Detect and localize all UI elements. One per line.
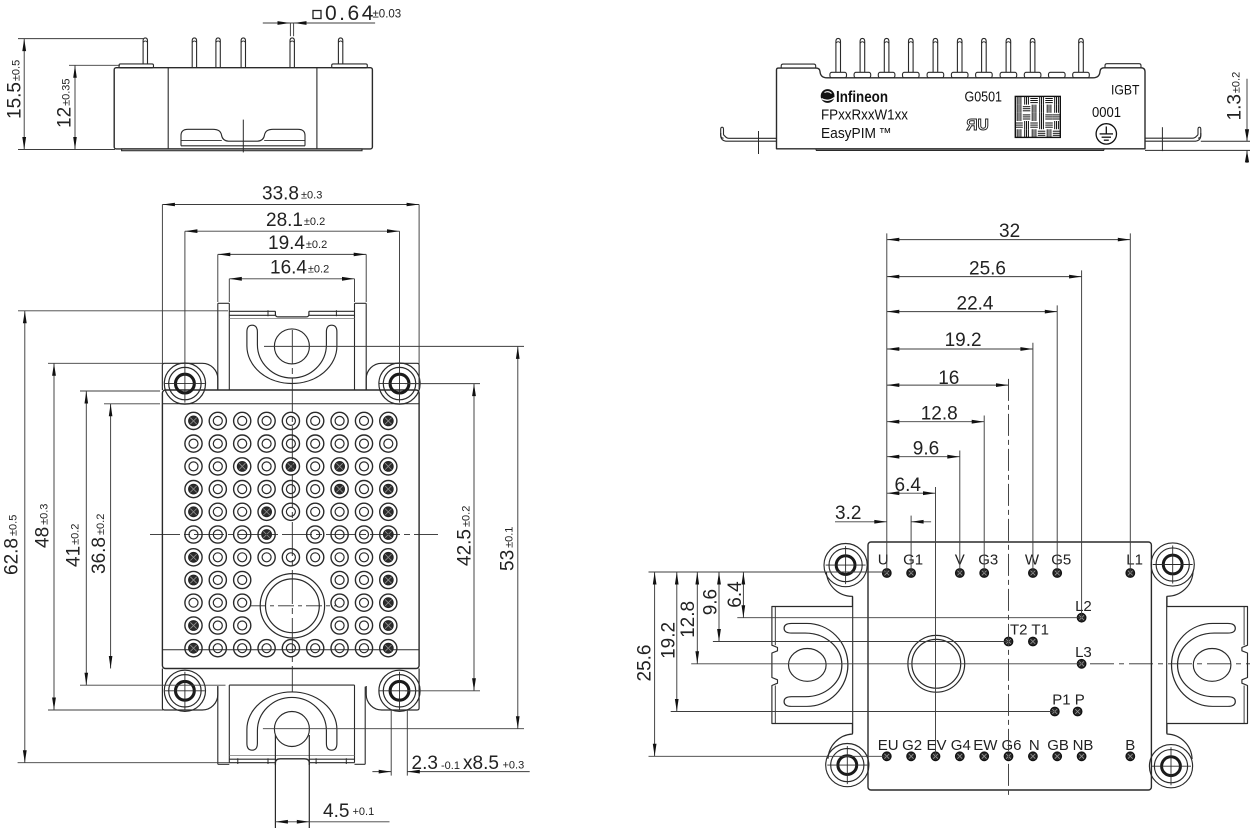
pin T1 — [1029, 637, 1038, 646]
pin G5 — [1053, 569, 1062, 578]
svg-text:0001: 0001 — [1092, 105, 1121, 121]
svg-text:0.64: 0.64 — [325, 2, 376, 25]
svg-text:6.4: 6.4 — [725, 581, 746, 608]
svg-text:15.5: 15.5 — [4, 82, 25, 119]
centre column dash-dot — [1008, 379, 1010, 795]
pin EW — [980, 752, 989, 761]
pin EV — [931, 752, 940, 761]
solder-pin hole grid — [185, 412, 202, 429]
left row extension bottom — [649, 755, 887, 757]
svg-text:+0.3: +0.3 — [503, 759, 525, 771]
mounting hole bottom-right — [390, 681, 409, 700]
svg-text:L2: L2 — [1075, 598, 1092, 615]
bottom keyhole circle — [274, 712, 309, 747]
svg-text:G5: G5 — [1051, 552, 1071, 569]
pin V — [956, 569, 965, 578]
svg-text:±0.2: ±0.2 — [70, 524, 82, 545]
bottom bracket pedestal — [217, 687, 219, 765]
pin G2 — [907, 752, 916, 761]
svg-text:T2 T1: T2 T1 — [1010, 622, 1049, 639]
dim 12.8 — [887, 421, 984, 423]
thermistor centreline — [250, 605, 337, 607]
dim 2.3 x 8.5 — [372, 771, 391, 773]
dim 0.64 square pin — [263, 22, 375, 24]
left row extension U — [649, 571, 887, 573]
dim 15.5 — [23, 39, 25, 150]
top bracket plate — [228, 303, 230, 390]
dim 42.5 — [473, 384, 475, 691]
pin 1 (front view) — [836, 38, 841, 72]
svg-text:16.4: 16.4 — [270, 258, 307, 279]
mounting hole top-right — [390, 374, 409, 393]
dim 1.3 — [1246, 79, 1248, 141]
ear bottom-left tail — [828, 724, 852, 759]
svg-text:IGBT: IGBT — [1111, 82, 1140, 98]
svg-text:EU: EU — [878, 737, 899, 754]
pin G1 — [907, 569, 916, 578]
pin GB — [1053, 752, 1062, 761]
dim 12 — [74, 65, 76, 149]
bottom keyhole clamp — [247, 692, 337, 750]
dim 6.4 — [887, 492, 936, 494]
svg-text:19.2: 19.2 — [659, 622, 680, 659]
right clip tick — [1161, 127, 1163, 151]
pin 11 (front view) — [1079, 38, 1084, 72]
mount hole top-right — [1163, 555, 1182, 574]
svg-text:x8.5: x8.5 — [463, 753, 499, 774]
svg-text:4.5: 4.5 — [323, 801, 349, 822]
svg-text:3.2: 3.2 — [835, 503, 861, 524]
svg-text:±0.2: ±0.2 — [461, 506, 473, 527]
pin foot 1 — [830, 72, 847, 78]
pin foot 9 — [1024, 72, 1041, 78]
top bracket pedestal — [217, 303, 219, 390]
ear top-left tail — [826, 572, 852, 607]
ear bottom-right tail — [1167, 724, 1192, 760]
svg-text:+0.1: +0.1 — [353, 806, 375, 818]
svg-text:6.4: 6.4 — [895, 475, 922, 496]
mounting hole bottom-left — [176, 681, 195, 700]
module body (top view) — [868, 542, 1151, 790]
dim 12.8 (left) — [696, 572, 698, 664]
pin 8 (front view) — [1006, 38, 1011, 72]
right bracket plate — [1167, 607, 1248, 724]
left clip tick — [758, 131, 760, 154]
pin W — [1029, 569, 1038, 578]
pin EU — [883, 752, 892, 761]
ground symbol — [1096, 124, 1116, 144]
ear top-right tail — [1167, 571, 1193, 607]
dim 19.4 — [218, 253, 366, 255]
pin NB — [1077, 752, 1086, 761]
datamatrix code — [1015, 96, 1060, 137]
mounting ear bottom-right — [366, 669, 419, 711]
dim 36.8 — [110, 404, 112, 669]
mount hole bottom-left — [838, 756, 857, 775]
substrate inner top line — [162, 403, 419, 405]
svg-text:9.6: 9.6 — [913, 439, 939, 460]
dim 16 — [887, 384, 1009, 386]
mounting ear top-left — [162, 363, 217, 390]
pin foot 4 — [903, 72, 920, 78]
dim 19.2 (left) — [676, 572, 678, 712]
left top tab — [781, 64, 816, 68]
body section line left — [167, 68, 169, 149]
svg-text:G4: G4 — [951, 737, 971, 754]
svg-text:±0.2: ±0.2 — [1231, 72, 1243, 93]
dim 6.4 (left) — [742, 572, 744, 618]
left keyhole clamp — [784, 623, 848, 706]
svg-text:±0.5: ±0.5 — [10, 60, 22, 81]
pin 4 (front view) — [909, 38, 914, 72]
svg-text:41: 41 — [64, 546, 85, 567]
svg-text:19.4: 19.4 — [268, 233, 305, 254]
left keyhole circle — [789, 649, 827, 682]
svg-text:G6: G6 — [1002, 737, 1022, 754]
pin B — [1126, 752, 1135, 761]
centre tick — [242, 120, 244, 153]
svg-text:G2: G2 — [902, 737, 922, 754]
pin L3 — [1077, 660, 1086, 669]
svg-text:22.4: 22.4 — [957, 294, 994, 315]
svg-text:EasyPIM: EasyPIM — [821, 126, 876, 142]
right keyhole clamp — [1172, 623, 1236, 706]
seating plane extension — [1145, 149, 1250, 151]
pin foot 10 — [1049, 72, 1066, 78]
svg-text:FPxxRxxW1xx: FPxxRxxW1xx — [821, 108, 909, 124]
slot extension lines — [390, 709, 392, 776]
right keyhole circle — [1193, 649, 1231, 682]
bottom terminal tongue — [274, 735, 276, 828]
dim 3.2 — [835, 521, 887, 523]
svg-text:±0.2: ±0.2 — [308, 264, 329, 276]
pin foot 8 — [1000, 72, 1017, 78]
svg-text:GB: GB — [1047, 737, 1069, 754]
pin N — [1029, 752, 1038, 761]
pin 2 (front view) — [860, 38, 865, 72]
pin foot 3 — [878, 72, 895, 78]
right mounting clip — [1145, 127, 1201, 138]
dim 28.1 — [185, 230, 400, 232]
pin 3 — [216, 38, 220, 68]
svg-text:±0.3: ±0.3 — [39, 504, 51, 525]
dim 9.6 — [887, 456, 960, 458]
svg-text:±0.1: ±0.1 — [504, 527, 516, 548]
UL logo — [966, 117, 988, 134]
svg-text:EV: EV — [927, 737, 947, 754]
Infineon logo — [821, 89, 835, 103]
pin 1 (on left pedestal) — [143, 38, 147, 64]
dim 9.6 (left) — [718, 572, 720, 642]
row extension P1 — [671, 711, 1055, 713]
L2 column extension — [1081, 270, 1083, 617]
mount hole top-left — [836, 556, 855, 575]
pin 7 (front view) — [982, 38, 987, 72]
svg-text:1.3: 1.3 — [1225, 94, 1246, 120]
pin G3 — [980, 569, 989, 578]
svg-text:G0501: G0501 — [965, 90, 1003, 106]
svg-text:12: 12 — [55, 107, 76, 128]
right pedestal — [332, 64, 368, 68]
EV column extension — [935, 487, 937, 756]
pin P — [1073, 707, 1082, 716]
svg-text:12.8: 12.8 — [678, 601, 699, 638]
pin 3 (front view) — [884, 38, 889, 72]
svg-text:W: W — [1025, 552, 1040, 569]
svg-text:25.6: 25.6 — [969, 259, 1006, 280]
substrate inner bottom line — [162, 649, 419, 651]
pin L1 — [1126, 569, 1135, 578]
svg-text:N: N — [1029, 737, 1040, 754]
dim 19.2 — [887, 348, 1033, 350]
row extension L3 centreline — [691, 663, 1082, 665]
svg-text:2.3: 2.3 — [412, 753, 438, 774]
svg-text:-0.1: -0.1 — [441, 760, 460, 772]
dim 41 — [85, 391, 87, 685]
dim 25.6 (left) — [654, 572, 656, 756]
G5 column extension — [1056, 305, 1058, 573]
horizontal centreline — [150, 534, 438, 536]
pin T2 — [1004, 637, 1013, 646]
svg-text:28.1: 28.1 — [266, 210, 303, 231]
svg-text:±0.2: ±0.2 — [95, 514, 107, 535]
pin 5 (measured pin) — [290, 38, 294, 68]
svg-text:53: 53 — [498, 550, 519, 571]
dim 16.4 — [229, 278, 354, 280]
svg-text:G1: G1 — [903, 552, 923, 569]
body section line right — [316, 68, 318, 149]
thermistor circle — [908, 635, 965, 692]
dim 62.8 — [24, 311, 26, 763]
svg-text:™: ™ — [879, 125, 892, 140]
right top tab — [1105, 64, 1141, 68]
svg-text:L3: L3 — [1075, 644, 1092, 661]
svg-text:NB: NB — [1073, 737, 1094, 754]
svg-text:42.5: 42.5 — [455, 529, 476, 566]
dim 25.6 — [887, 276, 1082, 278]
left pedestal — [119, 64, 154, 68]
baseplate edge — [816, 149, 1104, 151]
pin L2 — [1077, 613, 1086, 622]
dim 32 — [887, 239, 1131, 241]
svg-text:±0.5: ±0.5 — [8, 515, 20, 536]
pin U — [883, 569, 892, 578]
pin foot 6 — [951, 72, 968, 78]
svg-text:G3: G3 — [978, 552, 998, 569]
pin 9 (front view) — [1030, 38, 1035, 72]
row extension T2 — [713, 641, 1009, 643]
pin 6 (on right pedestal) — [338, 38, 342, 64]
W column extension — [1032, 343, 1034, 573]
dim 53 — [517, 346, 519, 728]
vertical centreline — [291, 330, 293, 692]
mounting hole top-left — [176, 374, 195, 393]
dim 22.4 — [887, 311, 1057, 313]
pin 6 (front view) — [957, 38, 962, 72]
module body (side view) — [114, 68, 372, 149]
svg-text:Infineon: Infineon — [836, 89, 888, 106]
svg-text:25.6: 25.6 — [635, 645, 656, 682]
pin G6 — [1004, 752, 1013, 761]
L1 column extension — [1129, 233, 1131, 573]
top keyhole circle — [274, 329, 309, 364]
svg-text:48: 48 — [33, 527, 54, 548]
svg-text:±0.2: ±0.2 — [304, 216, 325, 228]
G1 column extension — [910, 516, 912, 573]
U column extension — [886, 233, 888, 573]
mounting ear bottom-left — [162, 669, 217, 711]
row extension L2 — [737, 617, 1081, 619]
thermistor hole — [260, 574, 324, 638]
module outline (front view) — [777, 68, 1146, 149]
pin foot 7 — [976, 72, 993, 78]
svg-text:16: 16 — [938, 368, 959, 389]
mount hole bottom-right — [1162, 757, 1181, 776]
svg-text:B: B — [1125, 737, 1135, 754]
svg-text:33.8: 33.8 — [262, 184, 299, 205]
pin foot 5 — [927, 72, 944, 78]
svg-text:P1 P: P1 P — [1052, 692, 1085, 709]
top keyhole clamp — [247, 325, 337, 383]
svg-text:32: 32 — [999, 221, 1020, 242]
svg-text:9.6: 9.6 — [701, 589, 722, 615]
svg-text:L1: L1 — [1126, 552, 1143, 569]
pin P1 — [1051, 707, 1060, 716]
mounting ear top-right — [366, 363, 419, 390]
svg-text:EW: EW — [973, 737, 998, 754]
left mounting clip — [721, 127, 777, 138]
bottom contact bumps — [181, 129, 305, 146]
dim 48 — [53, 363, 55, 710]
pin 5 (front view) — [933, 38, 938, 72]
svg-text:±0.35: ±0.35 — [61, 78, 73, 105]
svg-text:62.8: 62.8 — [2, 538, 23, 575]
svg-text:±0.03: ±0.03 — [373, 9, 402, 21]
svg-text:19.2: 19.2 — [945, 330, 982, 351]
pin 2 — [192, 38, 196, 68]
svg-text:±0.3: ±0.3 — [301, 190, 322, 202]
pin G4 — [956, 752, 965, 761]
dim 4.5 — [275, 821, 389, 823]
bottom bracket plate — [228, 685, 230, 763]
pin 4 — [241, 38, 245, 68]
svg-text:±0.2: ±0.2 — [306, 239, 327, 251]
pin foot 2 — [854, 72, 871, 78]
svg-text:36.8: 36.8 — [89, 537, 110, 574]
left bracket plate — [772, 607, 853, 724]
G3 column extension — [983, 416, 985, 574]
pin foot 11 — [1073, 72, 1090, 78]
svg-text:12.8: 12.8 — [921, 404, 958, 425]
baseplate — [122, 149, 362, 151]
svg-text:UR: UR — [966, 117, 988, 134]
V column extension — [959, 451, 961, 574]
dim 33.8 — [162, 204, 419, 206]
module body (bottom view) — [162, 390, 419, 669]
